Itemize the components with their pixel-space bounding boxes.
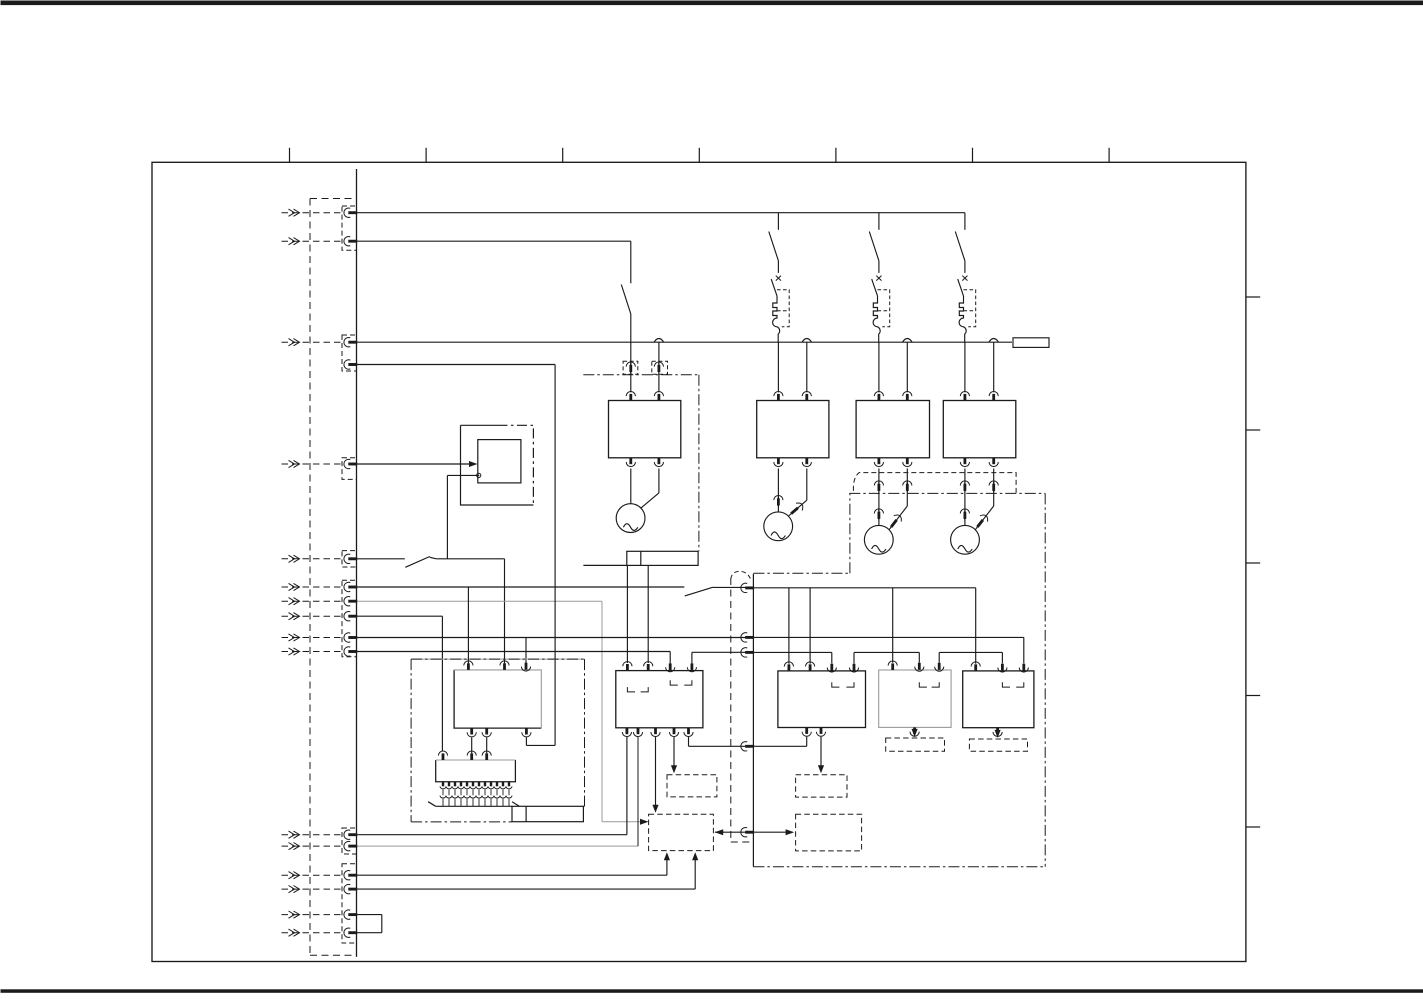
link A4 pin3 - A5 pin2: [939, 652, 1002, 663]
row587 distribution: [754, 587, 976, 589]
contactor K3 pin wires: [879, 342, 907, 392]
contactor K1: [609, 401, 681, 458]
IO feed wires: [472, 737, 487, 753]
row615 wire to IO pin: [357, 616, 442, 751]
signal box B2 dashed: [649, 814, 714, 850]
PLC A2 top pins: [623, 662, 697, 672]
motor M2 wire A: [774, 469, 783, 512]
motor M3 wire B: [889, 469, 907, 530]
row637 branch to PLC A1 pin3: [525, 638, 527, 664]
terminal group X4 dashed box: [342, 551, 357, 567]
PLC A3 contact marks: [832, 682, 854, 687]
signal box B5 dashed: [969, 739, 1027, 751]
breaker Q4: [955, 213, 975, 343]
A2 pin4 wire to B1: [671, 737, 677, 773]
PE bar E1 tail: [583, 564, 626, 566]
IO box top pins: [438, 751, 491, 760]
motor M4 wire B: [975, 469, 994, 530]
terminal group X6 dashed box: [342, 828, 357, 854]
sensor output port: [477, 473, 481, 477]
motor M1 wire B: [641, 469, 659, 509]
PLC box A2: [616, 671, 703, 728]
breaker Q2 drop: [0, 0, 2, 2]
terminal group X7 dashed box: [342, 864, 357, 943]
PLC box A4 gray: [879, 670, 951, 727]
IO box bottom pins: [440, 782, 512, 807]
row888 wire: [357, 852, 698, 889]
chain boundary drive1 top: [583, 374, 699, 376]
motor M1 wire A: [630, 469, 632, 504]
signal box B1 dashed: [667, 775, 717, 797]
plug X10a dashed box: [623, 361, 638, 374]
A3 pin2 wire to B3: [818, 737, 824, 774]
top title bar: [1, 1, 1423, 6]
PE bar E2: [512, 806, 583, 821]
IO box X20: [436, 760, 516, 782]
signal box B3 dashed: [796, 775, 847, 797]
PLC box A5: [963, 671, 1034, 728]
row845 wire gray: [357, 737, 638, 846]
motor M3: [864, 525, 893, 554]
enclosure chain rect: [411, 659, 584, 822]
IO ground busbar: [428, 802, 519, 807]
contactor K1 pins: [626, 392, 663, 467]
row586 wire to wall: [713, 586, 746, 588]
row834 wire: [357, 737, 627, 835]
sensor feed arrowhead: [469, 461, 478, 467]
row558 wire to PLC A1: [430, 557, 505, 663]
row874 wire: [357, 852, 670, 875]
terminal column dashed outline: [310, 199, 357, 956]
main terminal bus: [356, 169, 358, 957]
PLC A5 bottom pin: [993, 728, 1002, 737]
row651 to A3 pin3: [754, 652, 832, 663]
bus terminal connectors: [344, 208, 357, 937]
enclosure chain rect gray top: [412, 658, 585, 660]
terminal group X2 dashed box: [342, 335, 357, 371]
PLC box A1: [454, 670, 541, 728]
PLC A4 contact marks: [919, 682, 939, 687]
wire L1 top feeder: [357, 212, 965, 214]
motor M3 wire A: [874, 469, 883, 526]
row586 wire from bus: [357, 586, 684, 588]
PLC A2 bottom pins: [622, 728, 693, 737]
frame top ruler ticks: [290, 148, 1110, 163]
PE drops to PLC A2: [627, 565, 648, 663]
sensor feed wire row463: [357, 463, 469, 465]
row914 loop: [357, 915, 382, 933]
motor M4: [951, 525, 980, 554]
link A3 pin4 - A4 pin2: [854, 652, 919, 663]
PLC A2 pin4 wire: [692, 652, 746, 663]
PLC A1 bottom pins: [467, 728, 531, 737]
row587 drop A5 pin1: [975, 588, 977, 664]
terminal group X5 dashed box: [342, 580, 357, 656]
row364 wire long vertical: [357, 365, 555, 746]
terminal group X1 dashed box: [342, 206, 357, 250]
row651 wire to PLC A2 pin3: [357, 652, 670, 664]
signal box B4 dashed: [886, 738, 945, 751]
A2 pin3 wire to B2: [652, 737, 658, 813]
contactor K2: [757, 401, 829, 458]
plug X10b dashed box: [652, 361, 668, 374]
contactor K4 pin wires: [965, 342, 994, 392]
contactor K2 pins: [774, 392, 812, 467]
contactor K3: [856, 401, 929, 458]
terminal group X3 dashed box: [342, 458, 357, 480]
contactor K4 pins: [960, 392, 998, 467]
row587 drop A4 pin1: [892, 588, 894, 663]
sensor enclosure outline: [461, 425, 534, 505]
drawing frame: [152, 162, 1246, 961]
A5 pin wire to B5: [995, 730, 1001, 738]
row637 distribution: [754, 637, 1024, 663]
PLC A1 top pins: [464, 661, 531, 671]
contactor K3 pins: [874, 392, 912, 467]
motor M1: [616, 504, 645, 533]
A4 pin wire to B4: [912, 729, 918, 737]
row600 signal wire gray: [357, 601, 640, 822]
enclosure2 wall: [752, 574, 754, 867]
PE bar E1: [627, 551, 698, 565]
incoming feeder dashed arrows: [282, 209, 343, 936]
PE bar E2 link: [583, 805, 584, 807]
row558 wire from bus: [357, 558, 405, 560]
contactor K1 pinA wire: [630, 342, 632, 392]
chain boundary enclosure2: [753, 493, 1045, 866]
comm link B2-B6: [715, 829, 794, 835]
motor M4 wire A: [960, 469, 969, 526]
sensor inner box: [478, 440, 521, 483]
PLC A5 contact marks: [1002, 682, 1023, 687]
PLC A3 bottom pins: [802, 728, 826, 737]
main bus 341: [357, 341, 1012, 343]
motor plug X11 dashed boundary: [853, 473, 1016, 494]
switch Q1 blade: [621, 285, 631, 314]
bottom rule bar: [1, 989, 1423, 993]
enclosure2 dashed boundary: [731, 571, 754, 842]
contactor K1 pinB wire: [658, 342, 660, 392]
row637 wire: [357, 637, 745, 639]
PLC box A3: [778, 671, 866, 728]
plug X10 contacts: [626, 362, 663, 373]
motor M2 wire B: [789, 469, 807, 517]
sensor output wire: [447, 475, 477, 558]
switch S2 blade: [685, 587, 713, 596]
enclosure2 wall connectors: [741, 583, 754, 837]
row600 arrowhead: [640, 819, 649, 825]
wire Q1 to bus: [630, 314, 632, 342]
signal box B6 dashed: [796, 814, 862, 851]
motor plug X11 contacts: [874, 481, 998, 492]
bus end terminal: [1013, 338, 1049, 348]
PLC A5 top pins: [971, 662, 1028, 672]
PLC A4 bottom pin: [910, 727, 919, 736]
wire L2 feeder: [357, 241, 631, 283]
contactor K4: [943, 401, 1016, 458]
row587 drop A3 pin1: [788, 588, 790, 664]
PLC A3 top pins: [784, 662, 858, 672]
bus junction loops: [654, 339, 998, 343]
frame right ruler ticks: [1246, 297, 1260, 827]
switch S1 blade: [405, 557, 430, 568]
PLC A4 top pins: [888, 661, 944, 671]
row587 drop A3 pin2: [809, 588, 811, 664]
PLC A2 contact marks: [627, 680, 692, 692]
breaker Q2: [769, 213, 789, 343]
breaker Q3: [869, 213, 889, 343]
PLC A1 pin1 wire: [467, 587, 469, 663]
contactor K2 pin wires: [778, 342, 806, 392]
chain boundary drive1 right: [698, 375, 700, 552]
PLC A1 pin3 bottom wire: [525, 737, 527, 745]
row745 PE link: [689, 737, 807, 747]
motor M2: [764, 512, 793, 541]
